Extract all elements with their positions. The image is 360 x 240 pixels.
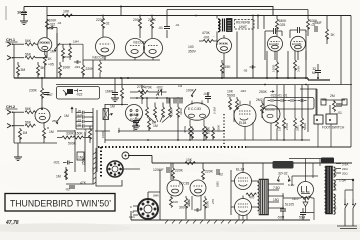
resistor 56K ch2 a xyxy=(14,107,37,114)
socket S2 output xyxy=(129,199,158,219)
svg-text:EL84: EL84 xyxy=(239,121,247,125)
resistor 3-5K screen right xyxy=(294,60,301,78)
resistor 470 between xyxy=(246,193,256,200)
svg-text:CH.2: CH.2 xyxy=(6,104,16,109)
svg-text:300: 300 xyxy=(179,206,185,210)
wire jack down xyxy=(13,44,15,78)
caps 50MF xyxy=(277,204,306,220)
wires foot switch xyxy=(300,85,330,132)
svg-text:250K: 250K xyxy=(259,90,268,94)
svg-text:-01: -01 xyxy=(77,118,81,122)
svg-text:120MF: 120MF xyxy=(153,168,164,172)
resistor 330K 150K xyxy=(57,132,90,140)
svg-text:560Ω: 560Ω xyxy=(227,94,236,98)
resistor 1M v9 xyxy=(148,118,157,131)
svg-text:-05: -05 xyxy=(77,109,81,113)
rotated labels 2-2M 330K xyxy=(213,107,221,132)
svg-text:470K: 470K xyxy=(84,129,88,136)
resistor 1M row2 xyxy=(17,62,26,78)
svg-text:20Ω: 20Ω xyxy=(342,172,348,176)
svg-text:-021: -021 xyxy=(53,161,60,165)
svg-text:1M: 1M xyxy=(64,114,69,118)
svg-text:25K: 25K xyxy=(52,119,57,123)
svg-text:10K: 10K xyxy=(186,158,193,162)
svg-text:6-3V: 6-3V xyxy=(288,183,294,187)
svg-text:-022: -022 xyxy=(240,89,246,93)
EQ resistors x4 xyxy=(146,98,172,128)
svg-text:-033: -033 xyxy=(74,65,80,69)
wires ch2 jacks down to ground xyxy=(14,112,57,160)
svg-text:ECC83: ECC83 xyxy=(269,42,279,46)
cap top V6 xyxy=(265,28,282,34)
tone caps bank box xyxy=(264,94,314,110)
svg-text:16Ω: 16Ω xyxy=(129,215,135,219)
resistor 56K grid a xyxy=(14,39,38,46)
tube V6 ECC83 xyxy=(268,36,283,51)
svg-text:5K: 5K xyxy=(41,66,46,70)
svg-text:200K: 200K xyxy=(148,18,157,22)
wire grid row with dots xyxy=(130,97,183,99)
rectifier tube GZ34 xyxy=(298,182,314,198)
reverb transformer xyxy=(217,16,232,36)
resistor 330K right xyxy=(177,97,184,140)
svg-text:2200: 2200 xyxy=(187,199,191,206)
svg-text:100K: 100K xyxy=(207,127,211,134)
svg-text:1M: 1M xyxy=(110,105,115,109)
svg-text:56K: 56K xyxy=(117,128,121,133)
svg-text:2M2: 2M2 xyxy=(216,181,220,187)
foot switch ground wires xyxy=(318,124,331,147)
svg-text:50M: 50M xyxy=(299,216,306,220)
svg-text:-50M: -50M xyxy=(277,216,285,220)
wires V6 V7 down xyxy=(265,30,306,60)
svg-text:230K: 230K xyxy=(29,89,38,93)
svg-text:½ECC83: ½ECC83 xyxy=(92,56,106,60)
resistor 10K lower xyxy=(185,158,195,165)
svg-text:-002: -002 xyxy=(156,86,163,90)
resistor cathode ch2 xyxy=(43,122,46,143)
tube V4 xyxy=(133,39,163,58)
resistor 56K grid b xyxy=(14,51,47,59)
svg-text:1M: 1M xyxy=(49,130,54,134)
svg-text:1M: 1M xyxy=(178,84,183,88)
resistor 1M5 extra xyxy=(276,85,282,140)
pilot lamp xyxy=(122,152,129,159)
svg-text:5L105: 5L105 xyxy=(285,203,294,207)
pot volume arrow xyxy=(56,114,69,124)
svg-text:-02: -02 xyxy=(77,123,81,127)
el34 cathode wires xyxy=(239,163,263,220)
svg-text:+05: +05 xyxy=(48,63,54,67)
jack 1 xyxy=(7,42,14,46)
pot arrow mid xyxy=(136,118,141,126)
resistor 100 right of socket xyxy=(170,196,179,207)
resistor 100K rot xyxy=(170,109,174,116)
interstage network V1-V2 xyxy=(57,40,83,70)
text 100 350V xyxy=(188,45,197,54)
svg-text:ECC83: ECC83 xyxy=(40,41,51,45)
svg-text:0M6: 0M6 xyxy=(153,194,159,198)
tube V15 EL34 top xyxy=(235,173,252,190)
bottom ground rail with hatching xyxy=(131,220,310,224)
wires el34 xyxy=(231,163,259,215)
pot 100K arrow mid xyxy=(186,89,196,98)
svg-text:2K: 2K xyxy=(331,33,336,37)
capacitor 16MF to ground xyxy=(17,7,28,25)
capacitor 16MF mid to ground xyxy=(105,78,119,102)
cap -047 xyxy=(203,92,211,103)
resistor 10K horizontal on bus C xyxy=(47,7,72,39)
node junction x121 xyxy=(120,6,122,16)
mid tube drop wires xyxy=(234,110,271,140)
svg-text:-01: -01 xyxy=(175,23,180,27)
resistor 270K rot xyxy=(283,85,290,140)
wires reverb springs down xyxy=(224,15,341,85)
svg-text:E.C.C.83: E.C.C.83 xyxy=(188,107,201,111)
svg-text:½ECC83: ½ECC83 xyxy=(133,41,146,45)
chassis line right solid xyxy=(247,146,351,148)
socket S1 xyxy=(107,161,123,177)
wire: bus D HT rail xyxy=(14,78,330,80)
mains bottom wires xyxy=(337,226,357,229)
svg-text:ECC82: ECC82 xyxy=(265,108,275,112)
wire right edge vertical xyxy=(350,16,352,148)
svg-text:270: 270 xyxy=(211,199,215,204)
resistor 220K plate V2 xyxy=(96,16,110,38)
svg-text:THUNDERBIRD TWIN’50’: THUNDERBIRD TWIN’50’ xyxy=(10,199,111,209)
resistor 220K psplit a xyxy=(172,163,184,180)
resistor 230K ch2 plate xyxy=(29,78,53,109)
svg-text:-01: -01 xyxy=(158,26,163,30)
wires socket area xyxy=(93,148,152,186)
resistor 1M ch2 xyxy=(19,128,28,143)
svg-text:2-2M: 2-2M xyxy=(213,107,217,114)
svg-text:ECC81: ECC81 xyxy=(292,42,302,46)
extra small labels for density xyxy=(52,21,334,206)
svg-text:100: 100 xyxy=(173,200,178,204)
resistors below psplit xyxy=(179,196,210,219)
resistor 160 screen left xyxy=(272,62,279,78)
tube V5 ECC81 xyxy=(217,35,232,53)
jack 2 xyxy=(7,56,14,60)
svg-text:ECC81: ECC81 xyxy=(219,42,228,46)
cap 10MF + gnd mid xyxy=(130,113,140,130)
svg-text:470: 470 xyxy=(249,196,255,200)
svg-text:100K: 100K xyxy=(101,131,105,138)
svg-text:1M: 1M xyxy=(153,124,158,128)
svg-text:470K: 470K xyxy=(63,55,70,59)
resistor 1M tone xyxy=(48,127,54,134)
svg-text:UNIT: UNIT xyxy=(239,25,247,29)
svg-text:2M: 2M xyxy=(330,94,335,98)
svg-text:15K: 15K xyxy=(225,65,232,69)
svg-text:100K: 100K xyxy=(63,66,72,70)
wire lower top rail xyxy=(128,156,352,164)
svg-text:250K: 250K xyxy=(82,157,86,165)
tube V16 EL34 bottom xyxy=(235,199,252,216)
svg-text:560K: 560K xyxy=(303,123,307,130)
cap -022 V1 plate xyxy=(49,26,57,44)
resistor 470K vert mid xyxy=(84,126,92,143)
svg-text:56K: 56K xyxy=(25,39,32,43)
tube V13 psplit left xyxy=(167,180,183,196)
resistor 220K psplit b xyxy=(202,163,214,180)
svg-text:-047: -047 xyxy=(203,92,210,96)
dotted chassis line horizontal xyxy=(98,146,247,148)
pot 500K xyxy=(68,110,97,172)
tube V1 ECC83 xyxy=(38,38,52,52)
svg-text:220K: 220K xyxy=(96,18,105,22)
svg-text:47,78: 47,78 xyxy=(5,220,19,226)
svg-text:10MF: 10MF xyxy=(130,113,139,117)
resistor 15K xyxy=(221,60,232,78)
dotted vertical divider x224 xyxy=(223,114,225,147)
dotted chassis vertical xyxy=(100,147,102,177)
jack 4 xyxy=(7,124,14,128)
resistor 5K xyxy=(37,62,54,78)
svg-text:56K: 56K xyxy=(25,107,32,111)
resistor 2M cluster xyxy=(321,94,347,115)
wires below row1 tubes xyxy=(83,56,160,78)
svg-text:100: 100 xyxy=(188,45,194,49)
svg-text:220K: 220K xyxy=(205,170,214,174)
pot 250K reverb mix xyxy=(259,90,274,94)
svg-text:1K: 1K xyxy=(48,57,53,61)
wire vertical x105 xyxy=(104,104,106,143)
svg-text:200K: 200K xyxy=(133,18,142,22)
mains switch xyxy=(344,180,356,226)
left margin mark xyxy=(5,6,7,20)
resistor 1M xyxy=(62,44,65,62)
svg-text:100K: 100K xyxy=(170,109,174,116)
svg-text:56K: 56K xyxy=(25,121,32,125)
label CH.2 xyxy=(6,104,18,109)
svg-text:K: K xyxy=(130,205,132,209)
psplit extra labels xyxy=(192,181,220,212)
wire node x57 xyxy=(50,33,57,78)
svg-text:25MF: 25MF xyxy=(313,21,322,25)
resistor 100K plate V1 xyxy=(46,19,58,38)
wire: bus B xyxy=(167,9,308,11)
pot 250K vertical xyxy=(77,152,86,165)
wire: HT bus A xyxy=(24,7,273,16)
cap can 32+32 xyxy=(273,161,294,182)
svg-text:7.5Ω: 7.5Ω xyxy=(273,186,280,190)
svg-text:-02: -02 xyxy=(105,22,110,26)
resistor 180K xyxy=(276,16,288,37)
svg-text:270K: 270K xyxy=(285,123,289,130)
svg-text:32+32: 32+32 xyxy=(278,172,288,176)
svg-text:160Ω: 160Ω xyxy=(272,64,276,72)
cap -021 xyxy=(53,161,73,165)
svg-text:470K: 470K xyxy=(202,31,211,35)
svg-text:220K: 220K xyxy=(175,169,184,173)
svg-text:350V: 350V xyxy=(188,50,197,54)
cap 120MF xyxy=(153,167,169,173)
svg-text:1M: 1M xyxy=(278,126,282,131)
resistor 56K ch2 b xyxy=(14,121,35,128)
selector switch rect xyxy=(103,109,113,120)
svg-text:470K: 470K xyxy=(183,126,187,133)
resistors hanging bus F xyxy=(183,126,215,140)
tube V10 ECC83 big xyxy=(185,101,210,121)
resistor 470K xyxy=(199,31,217,43)
resistor 16 ohm xyxy=(292,197,314,202)
svg-text:-022: -022 xyxy=(76,93,83,97)
resistor 2M1 extra xyxy=(294,85,300,140)
svg-text:10K: 10K xyxy=(63,10,70,14)
svg-text:-04: -04 xyxy=(57,21,62,25)
svg-text:16MF: 16MF xyxy=(17,10,28,15)
svg-text:-022 -01 -01: -022 -01 -01 xyxy=(270,94,288,98)
svg-text:47K: 47K xyxy=(80,181,87,185)
svg-text:22Ω: 22Ω xyxy=(342,167,348,171)
transformer tap texts xyxy=(336,163,348,176)
tube V3 xyxy=(126,39,145,58)
tube V8 ECC83 ch2 xyxy=(35,108,50,123)
svg-text:1M: 1M xyxy=(23,131,28,135)
resistor 2K xyxy=(326,16,336,45)
svg-text:330K: 330K xyxy=(179,108,183,115)
junction dots on buses xyxy=(41,15,307,141)
caps row on grid wire xyxy=(167,98,182,104)
svg-text:2M1: 2M1 xyxy=(296,125,300,131)
jack 3 xyxy=(7,110,14,114)
svg-text:15Ω: 15Ω xyxy=(273,198,280,202)
resistors 200K 200K plates V3 V4 xyxy=(133,16,157,39)
cap -02 psplit xyxy=(217,169,223,177)
tone ladder box ch2 xyxy=(71,107,93,129)
svg-text:-025: -025 xyxy=(279,23,286,27)
svg-text:-05: -05 xyxy=(243,69,248,73)
variable capacitor -002 xyxy=(155,86,167,96)
capacitor 25MF xyxy=(313,21,322,32)
svg-text:56K: 56K xyxy=(25,53,32,57)
svg-text:ECC83: ECC83 xyxy=(130,118,141,122)
wire: heater rail xyxy=(56,84,352,86)
wire: bus C xyxy=(47,15,351,17)
svg-text:18-0: 18-0 xyxy=(292,197,299,201)
svg-text:2-5A: 2-5A xyxy=(342,163,348,167)
resistors below V10 xyxy=(189,120,206,141)
svg-text:→: → xyxy=(212,34,215,38)
resistor 470K horizontal xyxy=(130,86,155,94)
wire bus F xyxy=(105,139,310,141)
svg-text:FOOT SWITCH: FOOT SWITCH xyxy=(322,126,345,130)
svg-text:1M4: 1M4 xyxy=(73,40,79,44)
tube V2 half ECC83 xyxy=(92,37,115,60)
resistor 560K rot xyxy=(301,85,308,140)
fuse T 1.5A xyxy=(336,179,354,183)
svg-text:3M: 3M xyxy=(21,68,26,72)
cap top V7 xyxy=(290,27,306,33)
resistor 1K cathode V1 xyxy=(43,50,52,78)
left tone cap enclosure box xyxy=(57,87,100,100)
pot arrow V1 xyxy=(54,43,60,52)
reverb unit dashed box xyxy=(235,20,255,30)
resistors 10K 560 xyxy=(227,90,239,111)
resistor 100K row2 xyxy=(59,62,72,78)
capacitor -01 coupling xyxy=(158,10,170,39)
svg-text:-001: -001 xyxy=(203,36,210,40)
psu interconnect wires xyxy=(283,159,326,221)
label CH.1 xyxy=(6,37,18,42)
tube V9 ECC83 mid xyxy=(126,105,143,132)
reverb springs wires xyxy=(257,15,264,30)
svg-text:-01: -01 xyxy=(337,111,342,115)
heater drop wires V6 V7 xyxy=(267,51,306,78)
speaker taps xyxy=(269,184,285,208)
cap -05 reverb xyxy=(243,65,256,72)
svg-text:4MF: 4MF xyxy=(77,114,83,118)
svg-text:100K: 100K xyxy=(206,201,210,208)
tube V7 ECC81 xyxy=(291,36,306,51)
svg-text:MF: MF xyxy=(312,71,317,75)
svg-text:+047: +047 xyxy=(45,93,53,97)
svg-text:470K: 470K xyxy=(144,86,153,90)
tube V14 psplit right xyxy=(179,180,206,196)
foot switch jacks xyxy=(314,114,345,130)
svg-text:+: + xyxy=(305,29,307,33)
power transformer xyxy=(325,166,337,214)
wires S2 xyxy=(131,163,171,220)
wire bus E xyxy=(57,130,225,132)
resistor 100K right xyxy=(307,10,319,37)
svg-text:3-5K: 3-5K xyxy=(297,66,301,72)
svg-text:100K: 100K xyxy=(186,89,195,93)
svg-text:ECC83: ECC83 xyxy=(179,182,190,186)
resistor 1M mid xyxy=(105,78,146,109)
svg-text:CH.1: CH.1 xyxy=(6,37,16,42)
tube V12 ECC82 xyxy=(262,105,280,123)
resistor 220K row2 xyxy=(82,60,95,78)
svg-text:1-5A: 1-5A xyxy=(339,179,347,183)
resistor 2M2 xyxy=(256,98,264,113)
capacitor 32MF xyxy=(312,64,321,79)
tube V11 EL84 xyxy=(234,101,256,127)
diode to ground xyxy=(303,202,308,212)
svg-text:1M: 1M xyxy=(56,175,61,179)
